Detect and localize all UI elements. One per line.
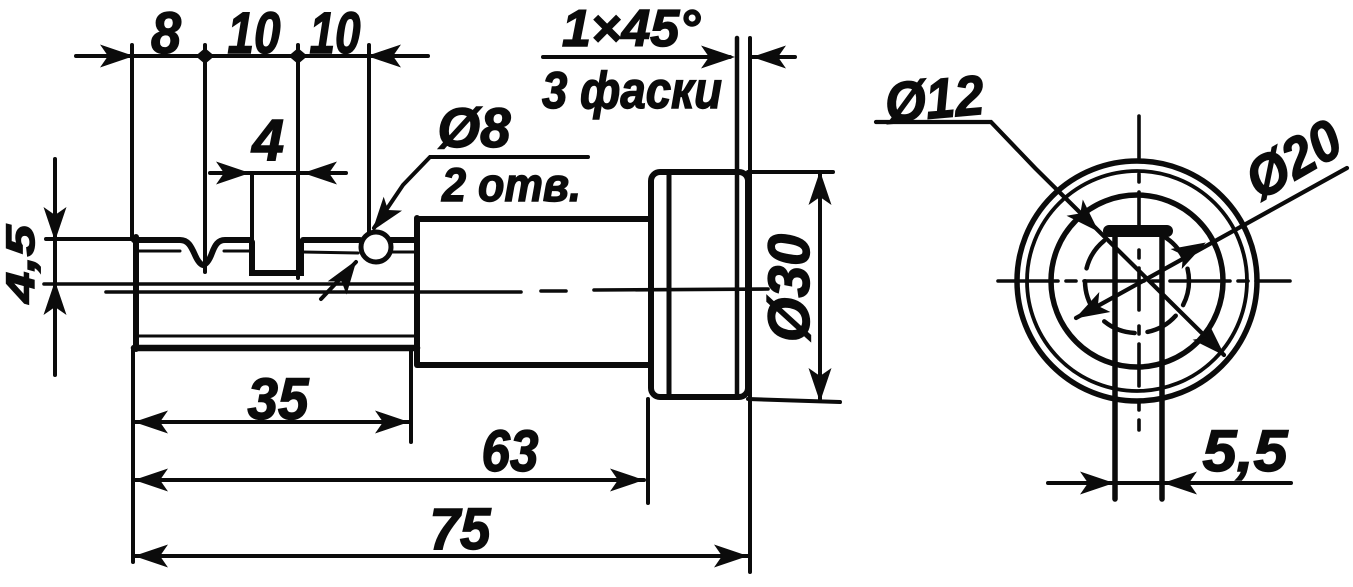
svg-text:8: 8 bbox=[151, 1, 182, 66]
end view vertical centerline bbox=[1137, 116, 1141, 430]
dim 4 arrows bbox=[216, 162, 250, 185]
svg-text:4: 4 bbox=[251, 108, 284, 173]
dimension 35 line bbox=[134, 420, 409, 424]
svg-text:1×45°: 1×45° bbox=[562, 0, 701, 58]
step face between thin and middle sections x=417 bbox=[414, 218, 420, 364]
svg-text:2 отв.: 2 отв. bbox=[441, 158, 581, 211]
svg-text:63: 63 bbox=[482, 419, 539, 484]
extension for 63 at x=648 bbox=[646, 399, 650, 503]
svg-text:10: 10 bbox=[228, 1, 281, 66]
shaft bottom edge bbox=[134, 345, 417, 352]
35 arrows bbox=[134, 411, 168, 434]
slot right wall bbox=[1159, 231, 1165, 499]
thread thin line bottom bbox=[139, 335, 414, 338]
head chamfer line right (extends up as extension line) bbox=[735, 38, 740, 396]
top chained dimension line 8/10/10 bbox=[76, 54, 428, 58]
O8 leader arrows bbox=[363, 197, 402, 238]
shaft top edge with V-groove and slot notch bbox=[134, 240, 250, 265]
svg-text:4,5: 4,5 bbox=[0, 224, 43, 304]
O8 hole circle on thin section bbox=[361, 232, 391, 262]
O8 leader lower segment bbox=[321, 262, 356, 299]
O8 leader upper segment bbox=[374, 157, 588, 228]
end view chamfer circle bbox=[1027, 171, 1247, 391]
svg-text:5,5: 5,5 bbox=[1203, 419, 1289, 484]
svg-text:35: 35 bbox=[248, 367, 310, 432]
O20 leader line bbox=[1076, 168, 1347, 318]
centerline of shaft bbox=[106, 289, 768, 292]
4,5 extension top bbox=[46, 237, 133, 241]
top extension line x=205 through V-groove bbox=[203, 45, 207, 272]
slot floor line (4.5 below top) bbox=[44, 282, 417, 286]
end view O12 dashed circle bbox=[1085, 229, 1189, 333]
dimension 63 line bbox=[134, 478, 644, 482]
svg-text:Ø8: Ø8 bbox=[438, 96, 512, 159]
5,5 arrows bbox=[1080, 472, 1114, 495]
head chamfer line left bbox=[667, 174, 672, 395]
end view horizontal centerline bbox=[998, 279, 1290, 283]
slot top cap bbox=[1109, 225, 1167, 237]
middle section (O20) top and bottom edges bbox=[417, 216, 650, 222]
head (O30) outline rounded rectangle bbox=[651, 172, 748, 397]
75 arrows bbox=[134, 545, 168, 568]
5,5 dimension line bbox=[1048, 481, 1291, 485]
O30 extension top bbox=[748, 170, 833, 174]
svg-text:75: 75 bbox=[430, 497, 492, 562]
head right face extension line (75 dim / 1x45) bbox=[748, 38, 752, 572]
dimension 75 line bbox=[134, 554, 748, 558]
O30 arrows bbox=[809, 171, 832, 205]
thread thin line top bbox=[139, 251, 414, 253]
1x45 arrows bbox=[701, 46, 735, 69]
end view O20 circle bbox=[1051, 195, 1223, 367]
dim 4,5 arrows bbox=[44, 207, 67, 241]
1x45 fraction bar / dim line bbox=[543, 55, 730, 59]
left extension/edge vertical x=133 bbox=[132, 45, 133, 562]
63 arrows bbox=[134, 469, 168, 492]
O12 leader arrows bbox=[1067, 200, 1107, 240]
O12 label underline and leader bbox=[876, 122, 1224, 355]
dimension 4 line bbox=[210, 171, 346, 175]
svg-text:Ø12: Ø12 bbox=[882, 63, 986, 134]
extension for 4 dim at notch left bbox=[250, 173, 254, 242]
slot left wall bbox=[1112, 231, 1118, 499]
O30 extension bottom bbox=[748, 399, 840, 402]
top extension line x=298 bbox=[296, 45, 300, 278]
O30 dimension line bbox=[818, 172, 822, 401]
svg-text:Ø30: Ø30 bbox=[757, 234, 822, 342]
shaft left end face bbox=[133, 237, 139, 349]
extension for 35 at x=411 bbox=[409, 350, 413, 442]
end view outer circle O30 bbox=[1017, 161, 1257, 401]
O20 leader arrows bbox=[1171, 232, 1212, 269]
svg-text:10: 10 bbox=[310, 1, 361, 66]
dimension 4,5 vertical line bbox=[53, 159, 57, 375]
svg-text:3 фаски: 3 фаски bbox=[542, 62, 722, 120]
top dim arrows bbox=[100, 45, 134, 68]
top extension line x=369 to hole bbox=[367, 45, 371, 232]
